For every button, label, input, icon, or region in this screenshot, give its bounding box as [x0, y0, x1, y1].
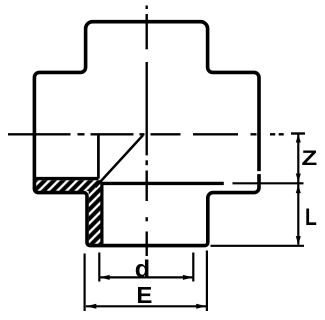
vertical centerline (dash-dot axis of top/bottom ports) [145, 6, 147, 257]
arrowhead d left [99, 275, 109, 280]
arrowhead L top [296, 184, 301, 193]
extension line shoulder (Z/L boundary) [233, 182, 304, 184]
bottom socket bore wall line [100, 183, 103, 244]
section boundary diagonal [96, 135, 144, 187]
svg-text:Z: Z [302, 146, 318, 169]
arrowhead d right [183, 275, 193, 280]
extension line d left [98, 253, 100, 282]
arrowhead E left [86, 304, 96, 309]
arrowhead Z bottom [296, 174, 301, 183]
arrowhead L bottom [296, 236, 301, 245]
section hatching (cut wall of left socket and bottom socket) [36, 180, 101, 244]
horizontal centerline (dash-dot axis of side ports) [8, 132, 305, 135]
svg-text:d: d [135, 257, 150, 283]
svg-text:E: E [136, 283, 152, 309]
line break on right arm edge [257, 171, 262, 174]
left socket internal shoulder [97, 134, 100, 178]
bottom socket internal shoulder line [100, 182, 224, 185]
arrowhead E right [196, 304, 206, 309]
dimension line d [99, 276, 193, 278]
left socket bore bottom line [34, 177, 98, 180]
dimension line E [86, 305, 207, 307]
extension line d right [192, 253, 194, 282]
arrowhead Z top [296, 134, 301, 143]
extension line E left [83, 254, 85, 312]
extension line E right [206, 251, 208, 312]
svg-text:L: L [305, 203, 317, 230]
cross fitting body outline [34, 22, 259, 246]
extension line socket mouth (L bottom) [211, 245, 305, 247]
dimension line Z and L [297, 134, 299, 245]
